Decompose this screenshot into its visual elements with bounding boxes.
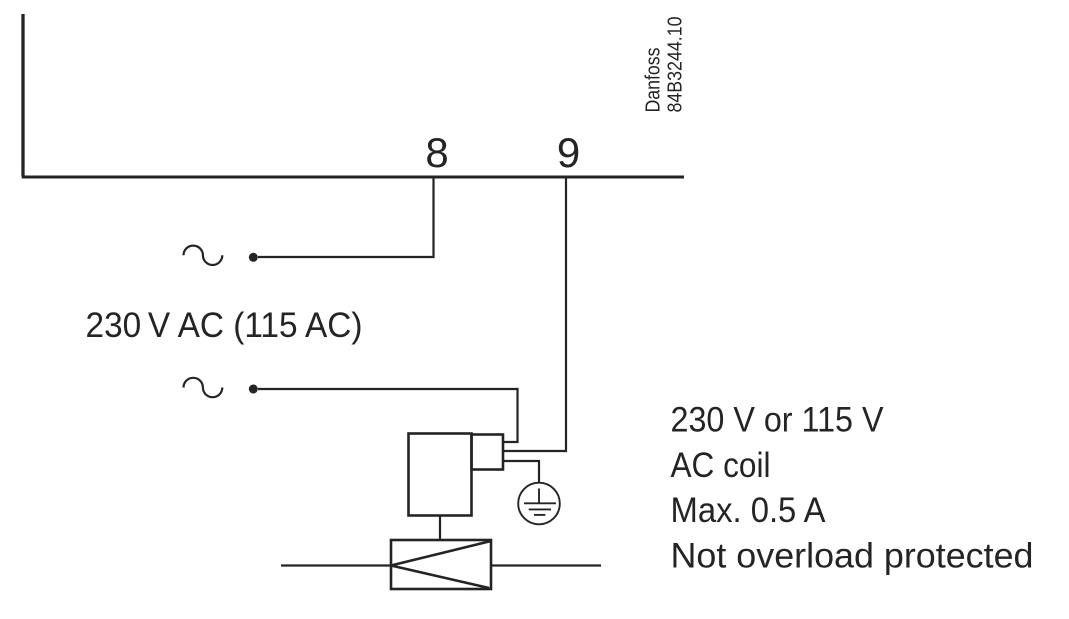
svg-text:Max. 0.5 A: Max. 0.5 A (671, 491, 827, 530)
svg-text:Danfoss: Danfoss (643, 48, 665, 113)
svg-text:84B3244.10: 84B3244.10 (665, 17, 687, 113)
svg-text:230 V AC (115 AC): 230 V AC (115 AC) (86, 306, 363, 345)
svg-text:9: 9 (557, 129, 580, 176)
svg-text:8: 8 (425, 129, 448, 176)
svg-text:Not overload protected: Not overload protected (671, 536, 1034, 575)
svg-text:AC coil: AC coil (671, 446, 771, 485)
svg-text:230 V or 115 V: 230 V or 115 V (671, 401, 885, 440)
